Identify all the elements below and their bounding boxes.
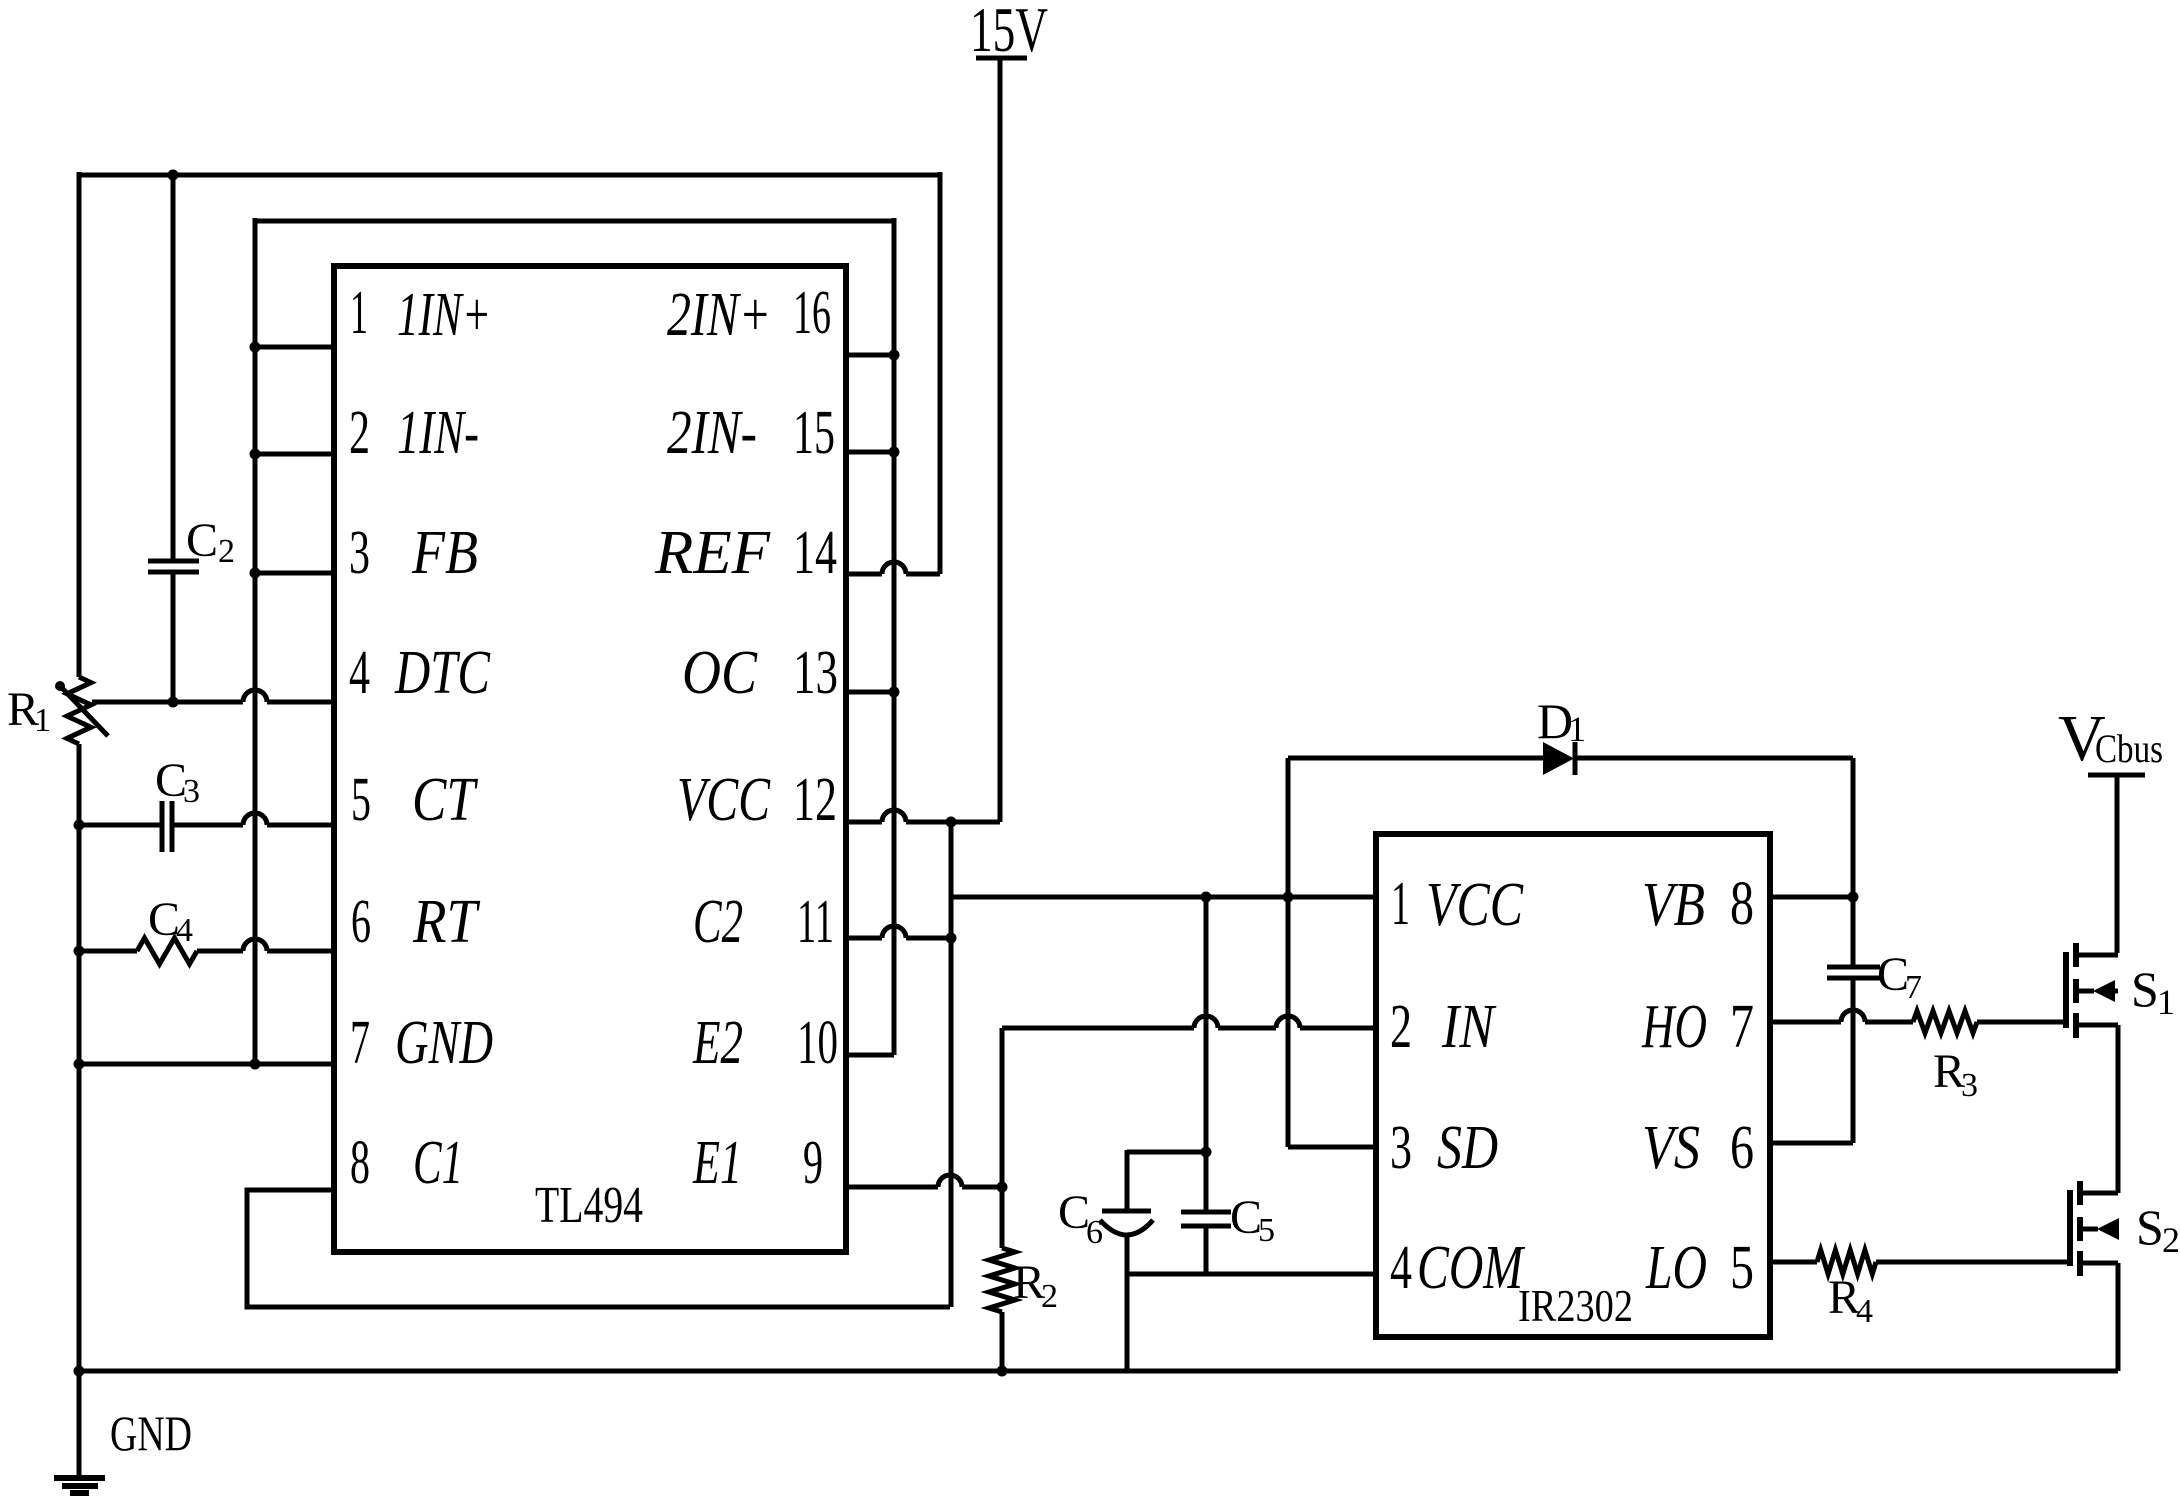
svg-text:16: 16 xyxy=(793,279,831,347)
junction dot VCC/line-B xyxy=(946,817,957,828)
svg-text:6: 6 xyxy=(1086,1214,1103,1251)
svg-text:GND: GND xyxy=(110,1405,192,1461)
capacitor C7 xyxy=(1827,965,1880,970)
junction dot pin1 bus xyxy=(250,342,261,353)
wire: pin 12 VCC wire xyxy=(846,820,882,825)
resistor R2 xyxy=(989,1248,1015,1312)
power symbol 15V bar xyxy=(976,56,1027,61)
junction dot DTC/C2 xyxy=(168,697,179,708)
wire: C6 jumper xyxy=(1127,1150,1206,1155)
wire: line B (VCC bus vertical) xyxy=(949,822,954,1307)
svg-text:IN: IN xyxy=(1441,993,1497,1061)
svg-text:C: C xyxy=(186,514,218,567)
svg-text:GND: GND xyxy=(395,1009,493,1077)
wire: pin 7 GND wire xyxy=(79,1062,334,1067)
svg-text:7: 7 xyxy=(1730,993,1754,1061)
svg-text:3: 3 xyxy=(1961,1067,1978,1104)
wire: LO wire xyxy=(1770,1260,1817,1265)
wire: VCbus drop xyxy=(2115,775,2120,953)
svg-text:IR2302: IR2302 xyxy=(1518,1280,1633,1331)
junction dot CT/left rail xyxy=(74,820,85,831)
capacitor C5 xyxy=(1181,1210,1231,1215)
svg-text:15: 15 xyxy=(793,399,835,467)
transistor S1 (MOSFET) xyxy=(2063,952,2069,1028)
wire: VCC wire to IR2302 xyxy=(951,895,1376,900)
wire: left vertical lower xyxy=(77,744,82,1371)
wire: C2 top lead xyxy=(171,175,176,561)
svg-text:5: 5 xyxy=(1730,1234,1754,1302)
svg-text:1: 1 xyxy=(350,279,368,347)
svg-text:TL494: TL494 xyxy=(535,1177,643,1234)
wire: pin 4 DTC wire xyxy=(92,700,243,705)
op-amp IC U1 TL494 box xyxy=(334,266,846,1252)
wire: R4 to S2 gate xyxy=(1876,1260,2070,1265)
junction dot GND/pin bus xyxy=(250,1059,261,1070)
svg-text:8: 8 xyxy=(350,1129,370,1197)
ground symbol xyxy=(54,1475,105,1481)
IC U2 IR2302 box xyxy=(1376,834,1770,1337)
wire: HO wire xyxy=(1770,1020,1841,1025)
svg-text:1: 1 xyxy=(1391,870,1410,938)
svg-text:SD: SD xyxy=(1437,1114,1498,1182)
svg-text:E1: E1 xyxy=(692,1129,742,1197)
svg-text:1IN-: 1IN- xyxy=(397,399,479,467)
wire: inner top rail xyxy=(255,219,894,224)
diode D1 xyxy=(1543,742,1574,775)
wire: half-bridge midpoint xyxy=(2116,1025,2121,1193)
svg-text:2: 2 xyxy=(1390,993,1412,1061)
svg-text:11: 11 xyxy=(797,888,834,956)
svg-text:3: 3 xyxy=(349,519,370,587)
svg-text:COM: COM xyxy=(1417,1234,1526,1302)
power symbol VCbus bar xyxy=(2088,773,2145,778)
svg-text:S: S xyxy=(2131,961,2159,1017)
svg-text:12: 12 xyxy=(793,766,837,834)
wire: IN net vertical xyxy=(1000,1028,1005,1248)
wire: pin 1 stub xyxy=(255,345,334,350)
wire: pin 13 stub xyxy=(846,690,894,695)
svg-text:C1: C1 xyxy=(413,1129,463,1197)
wire: inner rail right drop (pins 16-13 bus) xyxy=(892,218,897,1055)
wire: S2 source to rail xyxy=(2116,1263,2121,1371)
wire: line C (C5 branch) xyxy=(1204,897,1209,1212)
svg-text:2IN-: 2IN- xyxy=(667,399,757,467)
junction dot pin2 bus xyxy=(250,449,261,460)
svg-text:RT: RT xyxy=(412,888,481,956)
wire: pin 2 stub xyxy=(255,452,334,457)
wire: pin 3 stub xyxy=(255,571,334,576)
svg-text:10: 10 xyxy=(797,1009,838,1077)
svg-text:15V: 15V xyxy=(970,0,1048,65)
svg-text:14: 14 xyxy=(793,519,837,587)
svg-text:S: S xyxy=(2136,1199,2164,1255)
wire: pin 16 stub xyxy=(846,353,894,358)
svg-text:REF: REF xyxy=(654,519,771,587)
svg-text:1: 1 xyxy=(2157,982,2175,1022)
junction dot line-C/jumper xyxy=(1201,1147,1212,1158)
wire: VB wire xyxy=(1770,895,1853,900)
svg-text:9: 9 xyxy=(803,1129,823,1197)
capacitor C3 xyxy=(160,801,165,852)
wire: line D (SD / D1 anode) xyxy=(1286,758,1291,1147)
wire: pin 6 RT wire left xyxy=(79,949,137,954)
svg-text:2IN+: 2IN+ xyxy=(667,281,771,349)
wire: bottom ground rail xyxy=(79,1369,2118,1374)
wire: pin 15 stub xyxy=(846,450,894,455)
wire: outer top rail (REF feedback) xyxy=(79,173,940,178)
junction dot VB/C7 xyxy=(1848,892,1859,903)
svg-text:4: 4 xyxy=(176,912,193,949)
svg-text:2: 2 xyxy=(1041,1278,1058,1315)
wire: 15V supply rail vertical xyxy=(998,60,1003,822)
svg-text:4: 4 xyxy=(1856,1293,1873,1330)
resistor R3 xyxy=(1913,1011,1977,1033)
svg-text:1: 1 xyxy=(34,702,51,739)
junction dot C2out/line-B xyxy=(946,933,957,944)
svg-text:4: 4 xyxy=(349,639,370,707)
svg-text:2: 2 xyxy=(349,399,370,467)
svg-text:3: 3 xyxy=(183,773,200,810)
wire: C5 bottom lead xyxy=(1204,1226,1209,1274)
wire: pin 8 C1 loop xyxy=(247,1190,950,1307)
resistor R4 xyxy=(1817,1250,1876,1274)
wire: pin 9 E1 wire xyxy=(846,1185,938,1190)
wire: C6 top lead xyxy=(1125,1150,1130,1211)
junction dot pin13 bus xyxy=(889,687,900,698)
wire: COM wire xyxy=(1127,1272,1376,1277)
capacitor C6 (polarized) xyxy=(1102,1209,1151,1214)
wire: ground stem xyxy=(77,1371,82,1478)
wire: VS wire xyxy=(1770,1141,1853,1146)
wire: D1 cathode wire xyxy=(1575,756,1853,761)
svg-text:13: 13 xyxy=(793,639,838,707)
svg-text:3: 3 xyxy=(1390,1114,1412,1182)
svg-text:OC: OC xyxy=(682,639,758,707)
wire: pin 14 REF wire xyxy=(846,572,882,577)
svg-text:5: 5 xyxy=(1258,1212,1275,1249)
wire: C2 bottom lead xyxy=(171,572,176,702)
svg-text:LO: LO xyxy=(1645,1234,1707,1302)
svg-text:CT: CT xyxy=(412,766,479,834)
svg-text:2: 2 xyxy=(2162,1220,2180,1260)
svg-text:1IN+: 1IN+ xyxy=(397,281,491,349)
wire: C6 bottom lead xyxy=(1125,1237,1130,1371)
wire: pin 5 CT wire left xyxy=(79,823,162,828)
junction dot top rail / C2 xyxy=(168,170,179,181)
wire: pin 10 E2 stub xyxy=(846,1053,894,1058)
svg-text:7: 7 xyxy=(1905,969,1922,1006)
svg-text:HO: HO xyxy=(1641,993,1707,1061)
wire: R3 to S1 gate xyxy=(1977,1020,2066,1025)
svg-text:8: 8 xyxy=(1730,870,1754,938)
svg-text:VCC: VCC xyxy=(677,766,770,834)
junction dot R2/rail xyxy=(997,1366,1008,1377)
wire: D1 anode wire xyxy=(1288,756,1543,761)
svg-text:Cbus: Cbus xyxy=(2095,726,2163,771)
svg-text:FB: FB xyxy=(411,519,478,587)
junction dot pin15 bus xyxy=(889,447,900,458)
svg-text:VCC: VCC xyxy=(1426,871,1524,939)
junction dot pin3 bus xyxy=(250,568,261,579)
junction dot pin16 bus xyxy=(889,350,900,361)
svg-text:2: 2 xyxy=(218,533,235,570)
capacitor C4 (zigzag drawn) xyxy=(137,938,197,964)
junction dot VCC/line-C xyxy=(1201,892,1212,903)
wire: R2 bottom lead xyxy=(1000,1312,1005,1371)
svg-text:6: 6 xyxy=(351,888,371,956)
svg-text:VS: VS xyxy=(1642,1114,1700,1182)
junction dot RT/left rail xyxy=(74,946,85,957)
wire: pin 5 CT wire right xyxy=(172,823,243,828)
svg-text:E2: E2 xyxy=(692,1009,743,1077)
wire: pin 11 C2out wire xyxy=(846,936,882,941)
junction dot VCC/line-D xyxy=(1283,892,1294,903)
svg-text:1: 1 xyxy=(1568,709,1586,749)
junction dot GND/left rail xyxy=(74,1059,85,1070)
transistor S2 (MOSFET) xyxy=(2067,1190,2073,1266)
wire: IN wire to IR2302 xyxy=(1002,1026,1194,1031)
wire: SD wire xyxy=(1288,1145,1376,1150)
junction dot E1/R2 line xyxy=(997,1182,1008,1193)
svg-text:4: 4 xyxy=(1390,1234,1412,1302)
resistor R1 (variable) xyxy=(67,677,91,744)
wire: outer rail right drop to REF xyxy=(938,172,943,574)
svg-text:C2: C2 xyxy=(693,888,743,956)
wire: inner rail left drop (pins 1-3 bus) xyxy=(253,218,258,1064)
svg-text:7: 7 xyxy=(350,1009,370,1077)
capacitor C2 xyxy=(148,559,199,564)
wire: pin 6 RT wire right xyxy=(197,949,243,954)
svg-text:6: 6 xyxy=(1730,1114,1754,1182)
wire: C7 top lead xyxy=(1851,758,1856,967)
wire: C7 bottom lead xyxy=(1851,978,1856,1143)
svg-text:DTC: DTC xyxy=(394,639,490,707)
wire: left rail vertical upper (to R1) xyxy=(77,172,82,677)
svg-text:5: 5 xyxy=(351,766,371,834)
junction dot rail/left vertical xyxy=(74,1366,85,1377)
svg-text:VB: VB xyxy=(1642,871,1705,939)
